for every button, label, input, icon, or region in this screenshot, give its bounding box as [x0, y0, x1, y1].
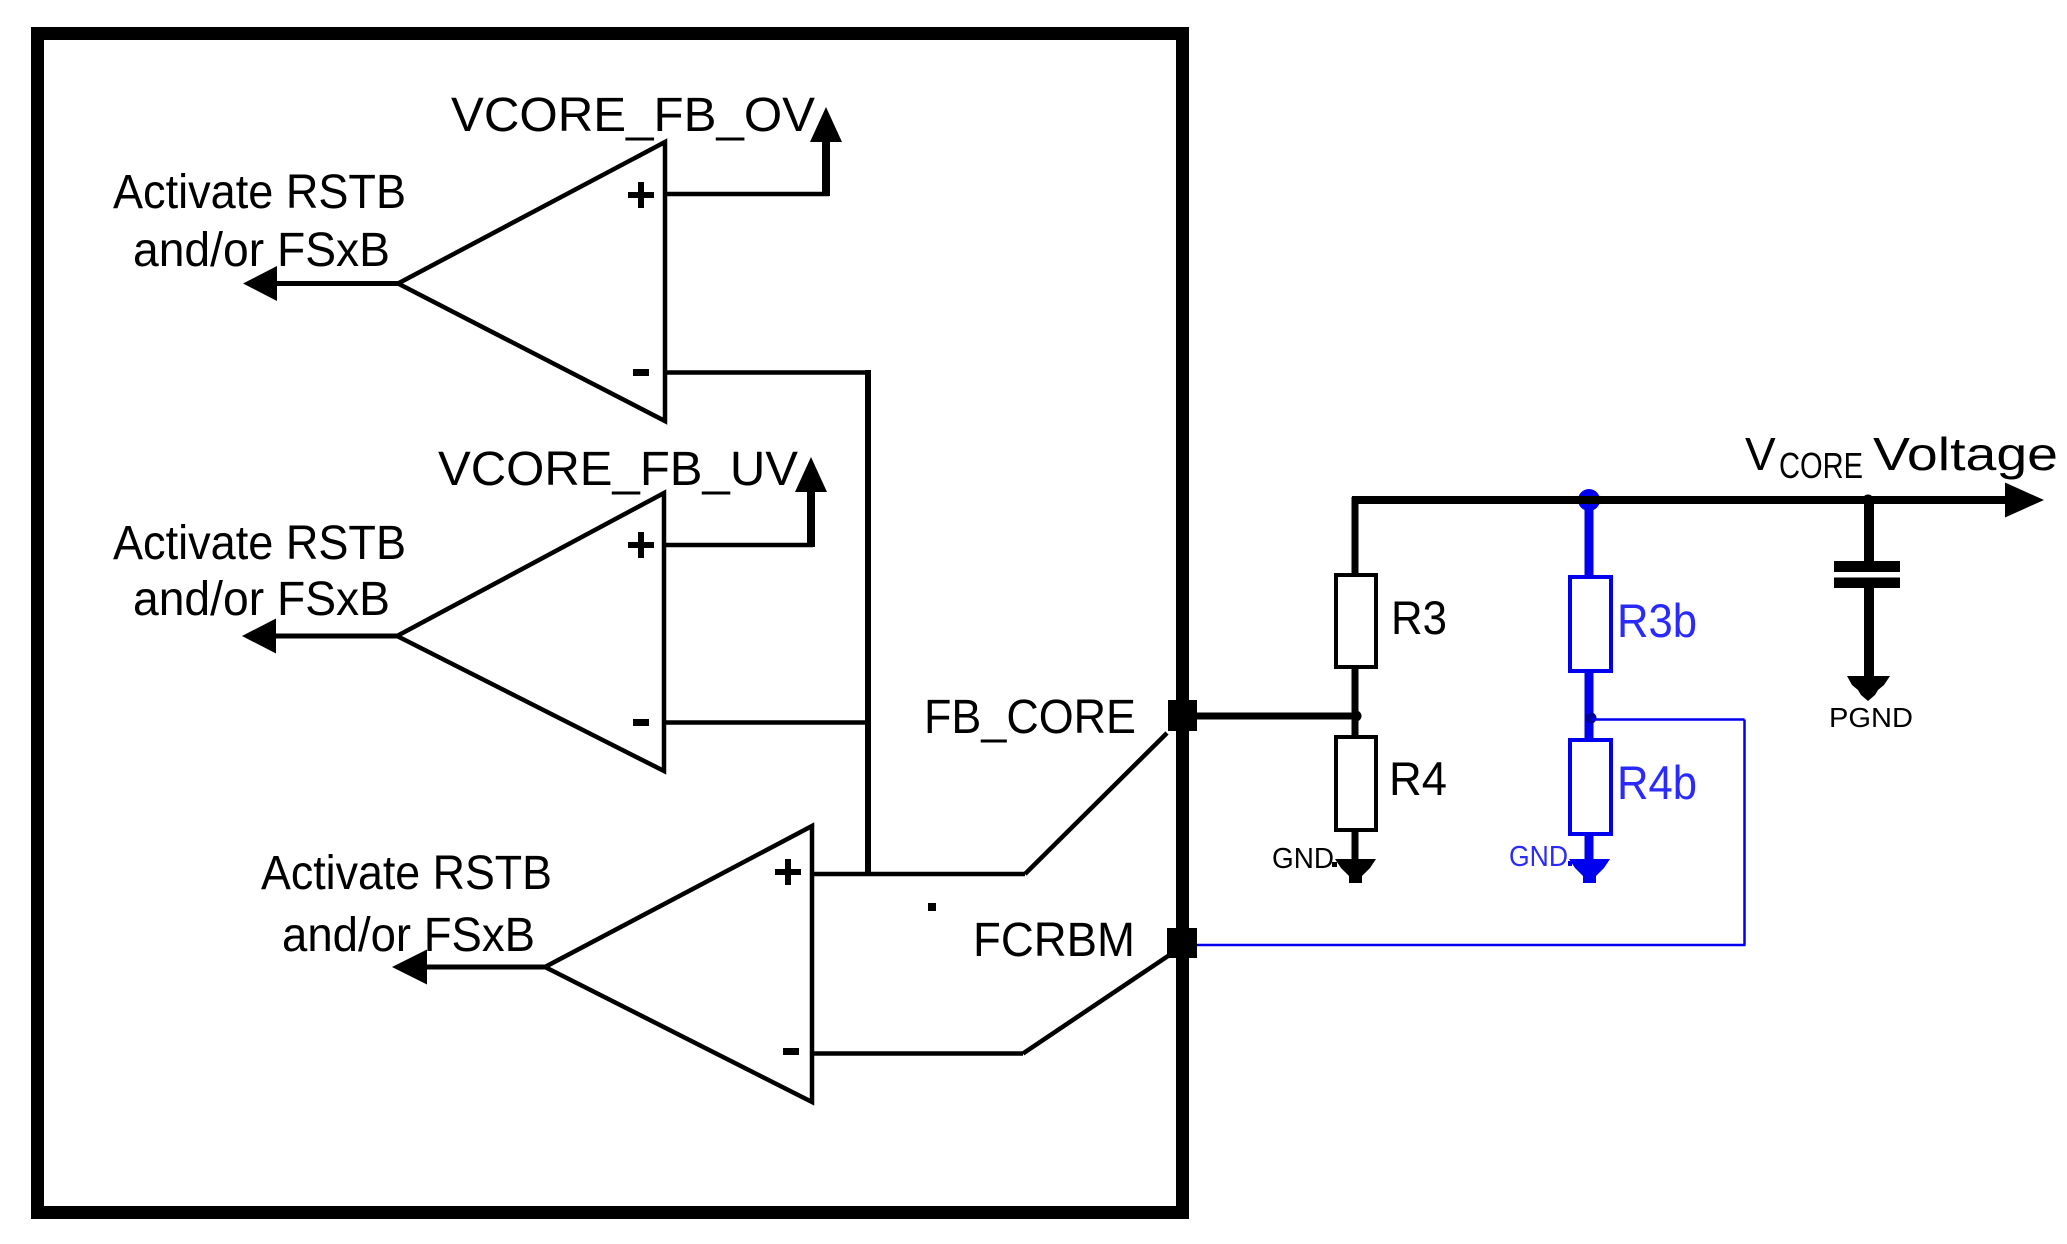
svg-text:VCORE_FB_OV: VCORE_FB_OV — [451, 89, 815, 142]
svg-text:R3b: R3b — [1617, 594, 1697, 647]
svg-text:Activate RSTB: Activate RSTB — [113, 166, 406, 219]
svg-text:and/or FSxB: and/or FSxB — [282, 909, 535, 962]
svg-text:GND: GND — [1272, 843, 1334, 875]
svg-text:FB_CORE: FB_CORE — [924, 691, 1136, 744]
svg-text:and/or FSxB: and/or FSxB — [133, 224, 390, 277]
svg-text:Activate RSTB: Activate RSTB — [261, 847, 552, 900]
svg-text:R4b: R4b — [1617, 756, 1697, 809]
svg-text:V: V — [1745, 428, 1776, 480]
svg-text:FCRBM: FCRBM — [973, 914, 1135, 967]
svg-text:and/or FSxB: and/or FSxB — [133, 573, 390, 626]
svg-text:R4: R4 — [1389, 752, 1447, 805]
svg-text:R3: R3 — [1391, 591, 1447, 644]
svg-text:Activate RSTB: Activate RSTB — [113, 517, 406, 570]
svg-text:Voltage: Voltage — [1873, 428, 2058, 480]
svg-text:PGND: PGND — [1829, 702, 1913, 733]
svg-text:CORE: CORE — [1779, 445, 1863, 486]
svg-text:VCORE_FB_UV: VCORE_FB_UV — [438, 443, 798, 496]
svg-text:GND: GND — [1509, 841, 1568, 873]
